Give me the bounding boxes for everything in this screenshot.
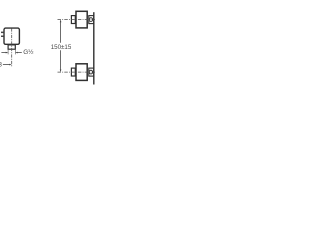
bottom union connector	[89, 68, 94, 76]
bottom union nut	[71, 68, 75, 76]
top union body	[76, 11, 87, 28]
bottom union body	[76, 64, 87, 81]
arrowhead pointing right at centerline	[9, 64, 11, 66]
center line top union	[58, 19, 96, 21]
wall bar	[93, 12, 95, 84]
lower dimension leader	[3, 64, 10, 66]
dimension line 150±15 lower segment	[60, 50, 62, 71]
top union connector	[89, 16, 94, 24]
mounting tab upper	[1, 32, 4, 33]
mounting tab lower	[1, 36, 4, 38]
arrowhead pointing left at neck	[15, 52, 17, 54]
G1/2 leader right segment	[16, 52, 21, 54]
valve body (side view)	[4, 28, 19, 44]
background	[0, 0, 96, 96]
center line (vertical, left view)	[11, 28, 13, 67]
top union nut	[71, 16, 75, 24]
arrowhead pointing right at neck	[6, 52, 8, 54]
center line bottom union	[58, 71, 96, 73]
svg-text:150±15: 150±15	[51, 44, 72, 51]
extension line right of neck	[14, 49, 16, 54]
dimension line 150±15 upper segment	[60, 20, 62, 42]
top union circle port	[89, 18, 93, 22]
extension line left of neck	[7, 49, 9, 54]
outlet neck	[8, 45, 15, 49]
dimension arrow up	[60, 20, 62, 22]
bottom union circle port	[89, 70, 93, 74]
dimension arrow down	[60, 70, 62, 72]
G1/2 leader left segment	[1, 52, 7, 54]
svg-text:G½: G½	[23, 48, 34, 56]
